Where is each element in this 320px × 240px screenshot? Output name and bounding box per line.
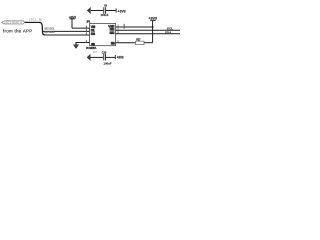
svg-text:100nF: 100nF — [104, 61, 112, 65]
svg-text:JP1: JP1 — [86, 19, 91, 23]
wire SCL out — [116, 29, 181, 31]
pin 6 mark — [117, 31, 120, 33]
wire from connector — [25, 21, 40, 23]
wire I2C SCL — [42, 30, 89, 32]
svg-text:EnB: EnB — [111, 42, 116, 46]
wire resistor to +3V3 — [144, 42, 153, 44]
capacitor C9 — [101, 3, 109, 17]
svg-text:SDA: SDA — [165, 31, 172, 35]
wire EnB to resistor — [116, 42, 136, 44]
wire SDA out — [116, 33, 181, 35]
svg-text:from the APP: from the APP — [3, 29, 32, 34]
pin 7 mark — [117, 28, 120, 30]
svg-text:100nF: 100nF — [101, 13, 109, 17]
wire GND — [76, 43, 90, 45]
svg-text:+3V3: +3V3 — [117, 55, 124, 59]
wire VBatt (left) — [72, 27, 90, 29]
svg-text:SDAB: SDAB — [109, 31, 115, 35]
svg-text:SDAi: SDAi — [91, 32, 96, 36]
gnd arrow (top cap) — [87, 7, 103, 14]
svg-text:R17: R17 — [136, 38, 141, 42]
gnd arrow (bottom cap) — [87, 54, 104, 61]
wire cap to +3V3 (top) — [106, 10, 116, 12]
power +3V3 (left) — [69, 15, 76, 28]
bus entry curve — [39, 22, 45, 35]
svg-text:I2C SDA: I2C SDA — [44, 30, 54, 34]
pin 2 mark — [85, 29, 88, 32]
junction tick on VBatB wire — [123, 24, 125, 29]
svg-text:GND: GND — [91, 42, 96, 46]
svg-text:+3V3: +3V3 — [118, 9, 126, 13]
junction dot — [152, 26, 154, 28]
svg-text:SO8: SO8 — [93, 52, 98, 54]
svg-text:C10: C10 — [102, 51, 107, 55]
ground — [73, 45, 78, 49]
wire VBatB to +3V3 — [116, 26, 153, 28]
power +3V3 (bottom cap) — [115, 55, 123, 59]
svg-text:PCA9515A: PCA9515A — [86, 46, 97, 50]
power +3V3 (top cap) — [116, 8, 126, 13]
pin 1 mark — [85, 26, 88, 29]
wire cap to +3V3 (bottom) — [106, 56, 115, 58]
resistor R17 — [136, 41, 144, 44]
svg-text:C9: C9 — [104, 3, 108, 7]
power +3V3 (right) — [148, 17, 157, 43]
capacitor C10 — [102, 51, 112, 66]
IC JP1 box — [90, 24, 116, 46]
svg-text:I2C1_M: I2C1_M — [29, 17, 42, 21]
pin 3 mark — [85, 32, 88, 35]
svg-text:I2C1 BUS A: I2C1 BUS A — [4, 20, 22, 24]
off-page connector J1 (from the APP) — [2, 20, 25, 24]
pin 5 mark — [117, 40, 120, 42]
pin 8 mark — [117, 24, 120, 26]
pin 4 mark — [85, 40, 88, 43]
wire I2C SDA — [45, 34, 90, 36]
